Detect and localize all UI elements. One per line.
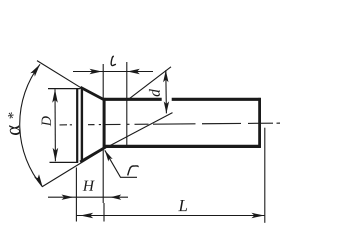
l dim arrow left bbox=[90, 69, 103, 74]
cone base edge bbox=[103, 98, 106, 148]
cone bottom extension line left bbox=[43, 149, 105, 187]
label d bbox=[149, 89, 160, 96]
l dim arrow right bbox=[127, 69, 140, 74]
label H bbox=[83, 181, 95, 191]
d dimension line bbox=[165, 70, 168, 113]
H dim arrow left bbox=[62, 195, 74, 200]
H dim arrow right bbox=[110, 195, 121, 200]
L dim arrow right bbox=[251, 213, 264, 218]
shank top outline right of gap bbox=[172, 98, 261, 101]
D dim arrow bottom bbox=[53, 148, 59, 162]
label D bbox=[42, 116, 51, 126]
oblique extension for d bbox=[127, 67, 171, 101]
l dimension line bbox=[73, 71, 153, 73]
label l (script ell) bbox=[111, 56, 116, 65]
H dimension line bbox=[48, 196, 128, 198]
r leader line bbox=[105, 150, 137, 177]
head cone bottom edge bbox=[80, 147, 105, 162]
extension line head face lower bbox=[75, 168, 77, 222]
label alpha bbox=[9, 125, 20, 135]
D dim arrow top bbox=[52, 89, 58, 103]
d dim arrow top bbox=[163, 70, 168, 82]
shank bottom outline bbox=[103, 145, 261, 148]
D bottom extension line bbox=[50, 161, 79, 163]
head face right line bbox=[81, 88, 83, 163]
L right extension line bbox=[264, 128, 266, 223]
head face left line bbox=[76, 89, 78, 163]
shank feature line bbox=[126, 62, 128, 148]
shank top outline bbox=[103, 98, 162, 101]
L dim arrow left bbox=[80, 213, 93, 218]
D dimension line bbox=[54, 89, 56, 161]
vertical extension line at x104 lower bbox=[103, 203, 105, 222]
L dimension line bbox=[76, 215, 264, 217]
D top extension line bbox=[48, 88, 80, 90]
head cone top edge bbox=[80, 87, 105, 100]
label L bbox=[178, 200, 187, 211]
arc arrow bottom bbox=[34, 174, 43, 187]
cone top extension line bbox=[37, 61, 81, 88]
label r bbox=[128, 166, 138, 175]
r leader arrow bbox=[105, 150, 113, 161]
angle arc alpha bbox=[20, 64, 43, 187]
shank right end bbox=[258, 98, 261, 148]
arc arrow top bbox=[30, 64, 40, 76]
cone bottom extension line right bbox=[104, 113, 172, 149]
centerline axis bbox=[60, 123, 281, 125]
label star bbox=[8, 112, 14, 118]
vertical extension line at cone base bbox=[102, 64, 104, 203]
d dim arrow bottom bbox=[164, 101, 169, 113]
